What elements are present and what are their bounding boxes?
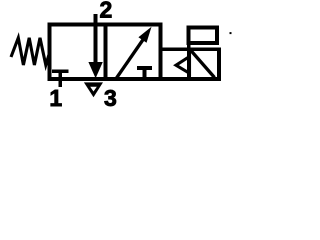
- blocked port 3 seat T-symbol crossbar: [137, 66, 152, 70]
- svg-text:2: 2: [100, 0, 113, 23]
- blocked port 1 seat T-symbol crossbar: [52, 69, 68, 73]
- exhaust triangle port 3: [84, 82, 103, 97]
- wire port 2 stub: [94, 14, 98, 25]
- wire flow path 1 to 2 in right box: [117, 38, 145, 79]
- blocked port 3 seat T-symbol stem: [143, 68, 147, 79]
- svg-text:1: 1: [49, 85, 62, 111]
- valve body position box left: [50, 25, 106, 80]
- node dot: [230, 32, 232, 34]
- wire coil to pilot box: [187, 43, 191, 57]
- arrowhead flow path down: [88, 62, 102, 78]
- pilot amplifier triangle: [176, 57, 190, 74]
- wire bottom rail extension: [161, 77, 221, 81]
- svg-text:3: 3: [104, 85, 117, 111]
- wire flow path 2 to 3 in left box: [94, 25, 98, 65]
- spring return: [11, 38, 50, 65]
- arrowhead flow path diagonal: [138, 27, 151, 43]
- solenoid diagonal stroke: [190, 50, 215, 78]
- wire port 1 stub: [58, 71, 62, 87]
- wire pilot connector: [161, 47, 189, 51]
- solenoid coil box: [189, 27, 217, 43]
- pilot valve box: [189, 49, 219, 79]
- valve body position box right: [106, 25, 161, 80]
